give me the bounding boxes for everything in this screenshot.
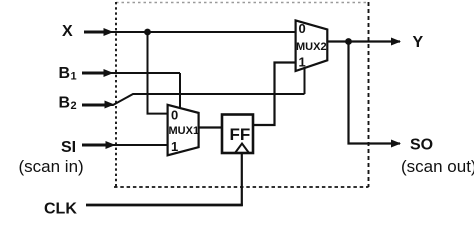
- arrowhead on B2 input: [105, 101, 115, 109]
- svg-text:Y: Y: [413, 34, 424, 51]
- svg-text:2: 2: [71, 100, 77, 112]
- svg-text:1: 1: [71, 71, 77, 83]
- svg-text:CLK: CLK: [44, 201, 77, 216]
- svg-text:(scan out): (scan out): [401, 157, 474, 176]
- arrowhead on SI input: [106, 141, 116, 149]
- junction on Y wire: [345, 38, 352, 45]
- wire B1 input: [82, 72, 108, 75]
- wire B2 up to MUX2 select: [304, 67, 306, 94]
- wire CLK to FF clock: [86, 204, 243, 207]
- wire from X junction down to MUX1 input 0: [148, 32, 169, 114]
- flip-flop FF: [222, 115, 253, 154]
- dashed boundary box: right edge: [368, 2, 370, 187]
- wire from Y junction down to SO: [349, 42, 401, 144]
- mux MUX2: [296, 20, 328, 71]
- dashed boundary box: top edge: [116, 2, 369, 4]
- mux MUX1: [168, 105, 199, 156]
- arrowhead on SO output: [391, 140, 401, 148]
- wire B2 input: [82, 104, 109, 107]
- dashed boundary box: left edge: [115, 2, 117, 187]
- wire X input: [84, 31, 108, 34]
- svg-text:0: 0: [171, 108, 178, 123]
- wire MUX2 output to Y: [327, 40, 400, 42]
- svg-text:1: 1: [299, 55, 306, 70]
- arrowhead on B1 input: [104, 69, 114, 77]
- svg-text:SI: SI: [61, 139, 76, 156]
- svg-text:MUX2: MUX2: [296, 41, 327, 53]
- svg-text:0: 0: [299, 21, 306, 36]
- dashed boundary box: bottom edge: [114, 186, 369, 188]
- svg-text:FF: FF: [230, 125, 251, 144]
- svg-text:SO: SO: [410, 137, 433, 154]
- wire SI input: [82, 144, 110, 147]
- svg-text:MUX1: MUX1: [169, 125, 200, 137]
- arrowhead on Y output: [391, 38, 401, 46]
- svg-text:B: B: [59, 95, 71, 112]
- wire B1 down to MUX1 select: [179, 73, 181, 109]
- FF clock triangle: [235, 144, 249, 154]
- wire MUX1 output to FF input: [199, 126, 222, 128]
- arrowhead on X input: [104, 28, 114, 36]
- svg-text:(scan in): (scan in): [19, 157, 84, 176]
- svg-text:1: 1: [171, 139, 178, 154]
- wire FF output up to MUX2 input 1: [253, 63, 296, 126]
- junction on X wire: [144, 29, 151, 36]
- svg-text:B: B: [59, 65, 71, 82]
- svg-text:X: X: [62, 23, 73, 40]
